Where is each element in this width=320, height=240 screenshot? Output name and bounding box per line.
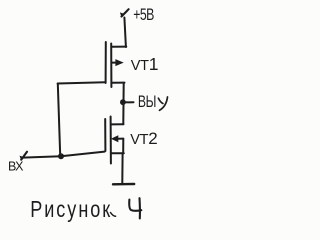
transistor VT1 channel bar [110, 44, 112, 88]
transistor VT2 gate bar [104, 119, 106, 151]
caption к tail [111, 213, 116, 217]
input arrowhead blob [20, 156, 24, 161]
transistor VT2 drain stub [112, 123, 124, 125]
wire VT1 to output node [122, 83, 124, 124]
wire supply vertical [124, 18, 126, 48]
svg-text:VT2: VT2 [130, 129, 157, 148]
transistor VT1 gate bar [105, 42, 107, 83]
power arrowhead blob [120, 12, 124, 17]
transistor VT2 source stub [112, 152, 124, 154]
caption numeral 4 [129, 198, 141, 218]
wire output tick [123, 101, 133, 103]
power arrow +5V [122, 9, 129, 16]
svg-text:ВЫ: ВЫ [138, 93, 156, 111]
svg-text:ВХ: ВХ [8, 160, 24, 174]
output node junction dot [120, 99, 126, 105]
wire input horizontal [23, 152, 105, 158]
ground bar [113, 183, 134, 186]
transistor VT2 channel bar [110, 117, 112, 164]
input arrow [21, 152, 27, 160]
wire gate link vertical [58, 84, 60, 156]
transistor VT1 bulk arrowhead [115, 59, 123, 66]
transistor VT1 source stub [112, 82, 125, 84]
svg-text:Рисунок: Рисунок [30, 197, 112, 223]
svg-text:+5В: +5В [133, 6, 154, 24]
transistor VT1 bulk stub [112, 62, 117, 64]
input junction dot [58, 153, 64, 159]
transistor VT2 bulk stub [118, 138, 124, 140]
wire gate link horizontal [58, 82, 105, 83]
wire VT2 bulk to source [122, 139, 124, 154]
transistor VT2 bulk arrowhead [111, 135, 118, 142]
wire VT2 source to ground [121, 154, 123, 184]
label ВЫХ letter Х strokes [158, 97, 167, 110]
transistor VT1 drain stub [112, 46, 126, 48]
